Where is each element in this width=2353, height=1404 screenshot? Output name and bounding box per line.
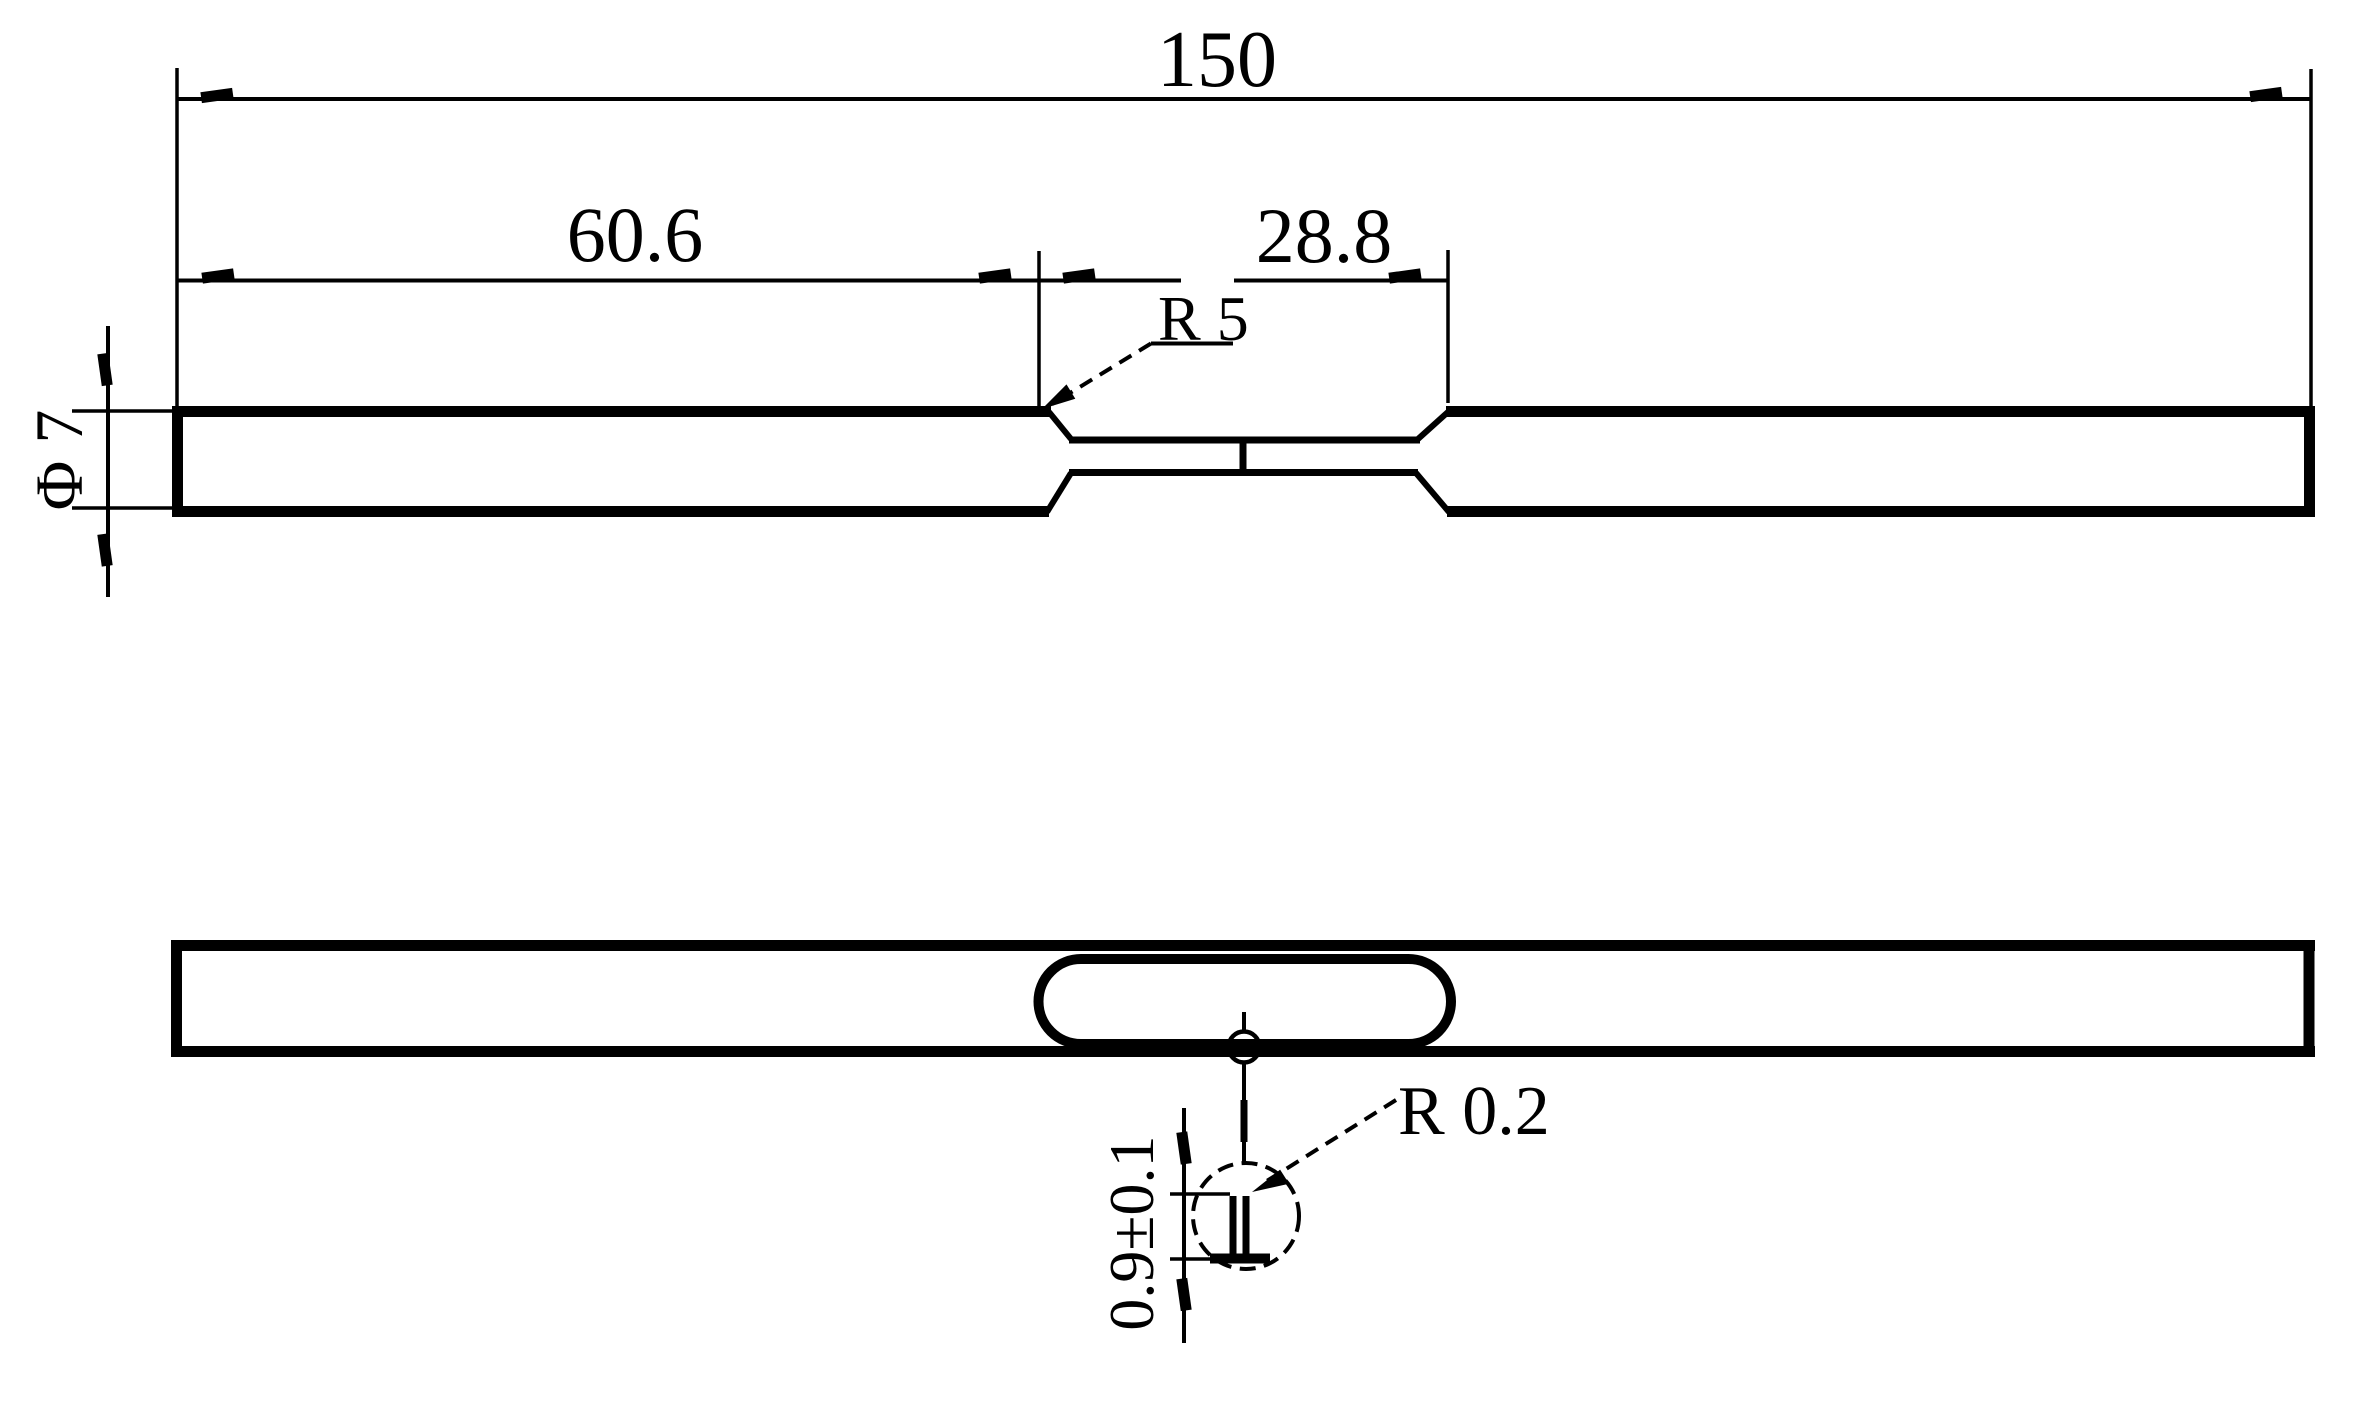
tick 60.6 right bbox=[978, 268, 1011, 283]
svg-text:150: 150 bbox=[1157, 16, 1277, 104]
specimen side view: bottom edge left segment bbox=[172, 506, 1049, 517]
leader arrowhead R 5 bbox=[1042, 384, 1075, 409]
dimension line 28.8 right segment bbox=[1234, 279, 1448, 283]
specimen side view: left end edge bbox=[172, 406, 183, 517]
extension line mid-right (28.8) bbox=[1446, 250, 1450, 403]
leader arrowhead R 0.2 bbox=[1252, 1170, 1289, 1192]
specimen side view: top-right shoulder slope bbox=[1418, 412, 1448, 439]
center line down thick dash bbox=[1241, 1100, 1248, 1142]
extension line mid-left (60.6 / 28.8) bbox=[1037, 251, 1041, 407]
specimen top view: right end edge bbox=[2304, 940, 2315, 1057]
leader line R 5 (dashed) bbox=[1052, 344, 1151, 405]
tick Phi7 bottom bbox=[97, 533, 112, 566]
specimen top view: bottom edge bbox=[172, 1046, 2315, 1057]
tick 0.9 top bbox=[1176, 1131, 1191, 1164]
specimen top view: left end edge bbox=[171, 940, 182, 1057]
specimen side view: top edge right segment bbox=[1446, 406, 2315, 417]
notch small circle on slot bottom bbox=[1229, 1032, 1260, 1063]
tick Phi7 top bbox=[97, 353, 112, 386]
center line down thin segment 2 bbox=[1242, 1142, 1246, 1163]
tick 28.8 left bbox=[1062, 268, 1095, 283]
dimension line 60.6 bbox=[177, 279, 1039, 283]
detail notch left wall bbox=[1230, 1196, 1237, 1254]
extension line Phi7 bottom bbox=[72, 506, 174, 510]
specimen side view: top edge left segment bbox=[172, 406, 1051, 417]
svg-text:28.8: 28.8 bbox=[1256, 192, 1393, 279]
slot (stadium shaped gauge cutout) bbox=[1039, 959, 1452, 1044]
extension line 0.9 top bbox=[1170, 1192, 1230, 1196]
extension line right (150) bbox=[2309, 69, 2313, 406]
dimension line 28.8 left segment bbox=[1039, 279, 1181, 283]
detail notch bottom flange bbox=[1210, 1254, 1270, 1264]
specimen side view: bottom-right shoulder slope bbox=[1416, 473, 1449, 512]
tick 150 right bbox=[2249, 87, 2282, 102]
svg-text:Φ 7: Φ 7 bbox=[21, 410, 97, 511]
specimen top view: top edge bbox=[172, 940, 2315, 951]
specimen side view: neck top line bbox=[1069, 437, 1420, 444]
leader line R 0.2 (dashed) bbox=[1262, 1100, 1396, 1184]
dimension line 0.9 (vertical) bbox=[1182, 1108, 1186, 1343]
tick 60.6 left bbox=[201, 268, 234, 283]
extension line 0.9 bottom bbox=[1170, 1257, 1210, 1261]
center line down thin segment bbox=[1242, 1063, 1246, 1100]
dimension line 150 bbox=[177, 97, 2311, 101]
specimen side view: bottom edge right segment bbox=[1447, 506, 2315, 517]
tick 150 left bbox=[200, 88, 233, 103]
extension line left (150 / 60.6) bbox=[175, 68, 179, 406]
extension line Phi7 top bbox=[72, 409, 174, 413]
detail notch right wall bbox=[1243, 1196, 1250, 1254]
detail circle (dashed) bbox=[1193, 1163, 1299, 1269]
tick 0.9 bottom bbox=[1176, 1278, 1191, 1311]
specimen side view: bottom-left shoulder slope bbox=[1047, 473, 1071, 512]
specimen side view: top-left shoulder slope bbox=[1049, 412, 1071, 439]
dimension line Phi7 (vertical) bbox=[106, 326, 110, 597]
specimen side view: neck bottom line bbox=[1069, 469, 1418, 476]
tick 28.8 right bbox=[1388, 268, 1421, 283]
leader underline R 5 bbox=[1151, 342, 1233, 346]
svg-text:R 0.2: R 0.2 bbox=[1398, 1073, 1550, 1150]
svg-text:60.6: 60.6 bbox=[567, 191, 704, 278]
svg-text:0.9±0.1: 0.9±0.1 bbox=[1096, 1135, 1167, 1330]
notch center tick above circle bbox=[1242, 1012, 1246, 1030]
specimen side view: gauge center mark bbox=[1240, 441, 1247, 472]
specimen side view: right end edge bbox=[2304, 406, 2315, 517]
